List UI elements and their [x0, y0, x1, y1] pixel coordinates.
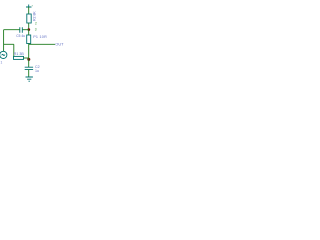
capacitor C2: [25, 67, 33, 69]
ground: [26, 77, 33, 81]
wire R2 to node: [28, 23, 30, 30]
wire left rail: [3, 30, 5, 52]
svg-text:R2 8K: R2 8K: [33, 11, 37, 21]
capacitor C5: [20, 27, 23, 33]
wire OUT: [29, 43, 55, 45]
junction dot emitter node: [27, 58, 30, 61]
wire stub to R1: [4, 43, 14, 45]
svg-text:2: 2: [35, 22, 37, 26]
svg-text:1u: 1u: [35, 69, 39, 73]
wire VCC to R2: [28, 7, 30, 14]
wire OUT tee to junction: [28, 44, 30, 58]
potentiometer P1: [27, 35, 31, 44]
junction dot node B: [27, 28, 30, 31]
svg-text:C5 4u: C5 4u: [16, 34, 25, 38]
wire C2 to ground: [28, 70, 30, 77]
svg-text:3: 3: [35, 27, 37, 31]
wire C5 to node: [22, 29, 28, 31]
AC source V1: [0, 51, 7, 58]
wire node to P1: [28, 30, 30, 35]
svg-text:R1 3B: R1 3B: [14, 52, 25, 56]
resistor R1: [14, 56, 24, 59]
svg-text:+: +: [32, 4, 34, 8]
svg-text:OUT: OUT: [55, 42, 64, 47]
svg-text:1: 1: [1, 61, 3, 65]
wire R1 to junction: [24, 57, 29, 59]
wire input to C5: [4, 29, 20, 31]
svg-text:P1 10R: P1 10R: [33, 35, 47, 39]
resistor R2: [27, 14, 31, 23]
wire P1 to OUT tee: [28, 43, 30, 46]
wire drop to R1: [13, 44, 15, 58]
wire junction to C2: [28, 58, 30, 67]
power rail VCC bar: [26, 5, 32, 8]
